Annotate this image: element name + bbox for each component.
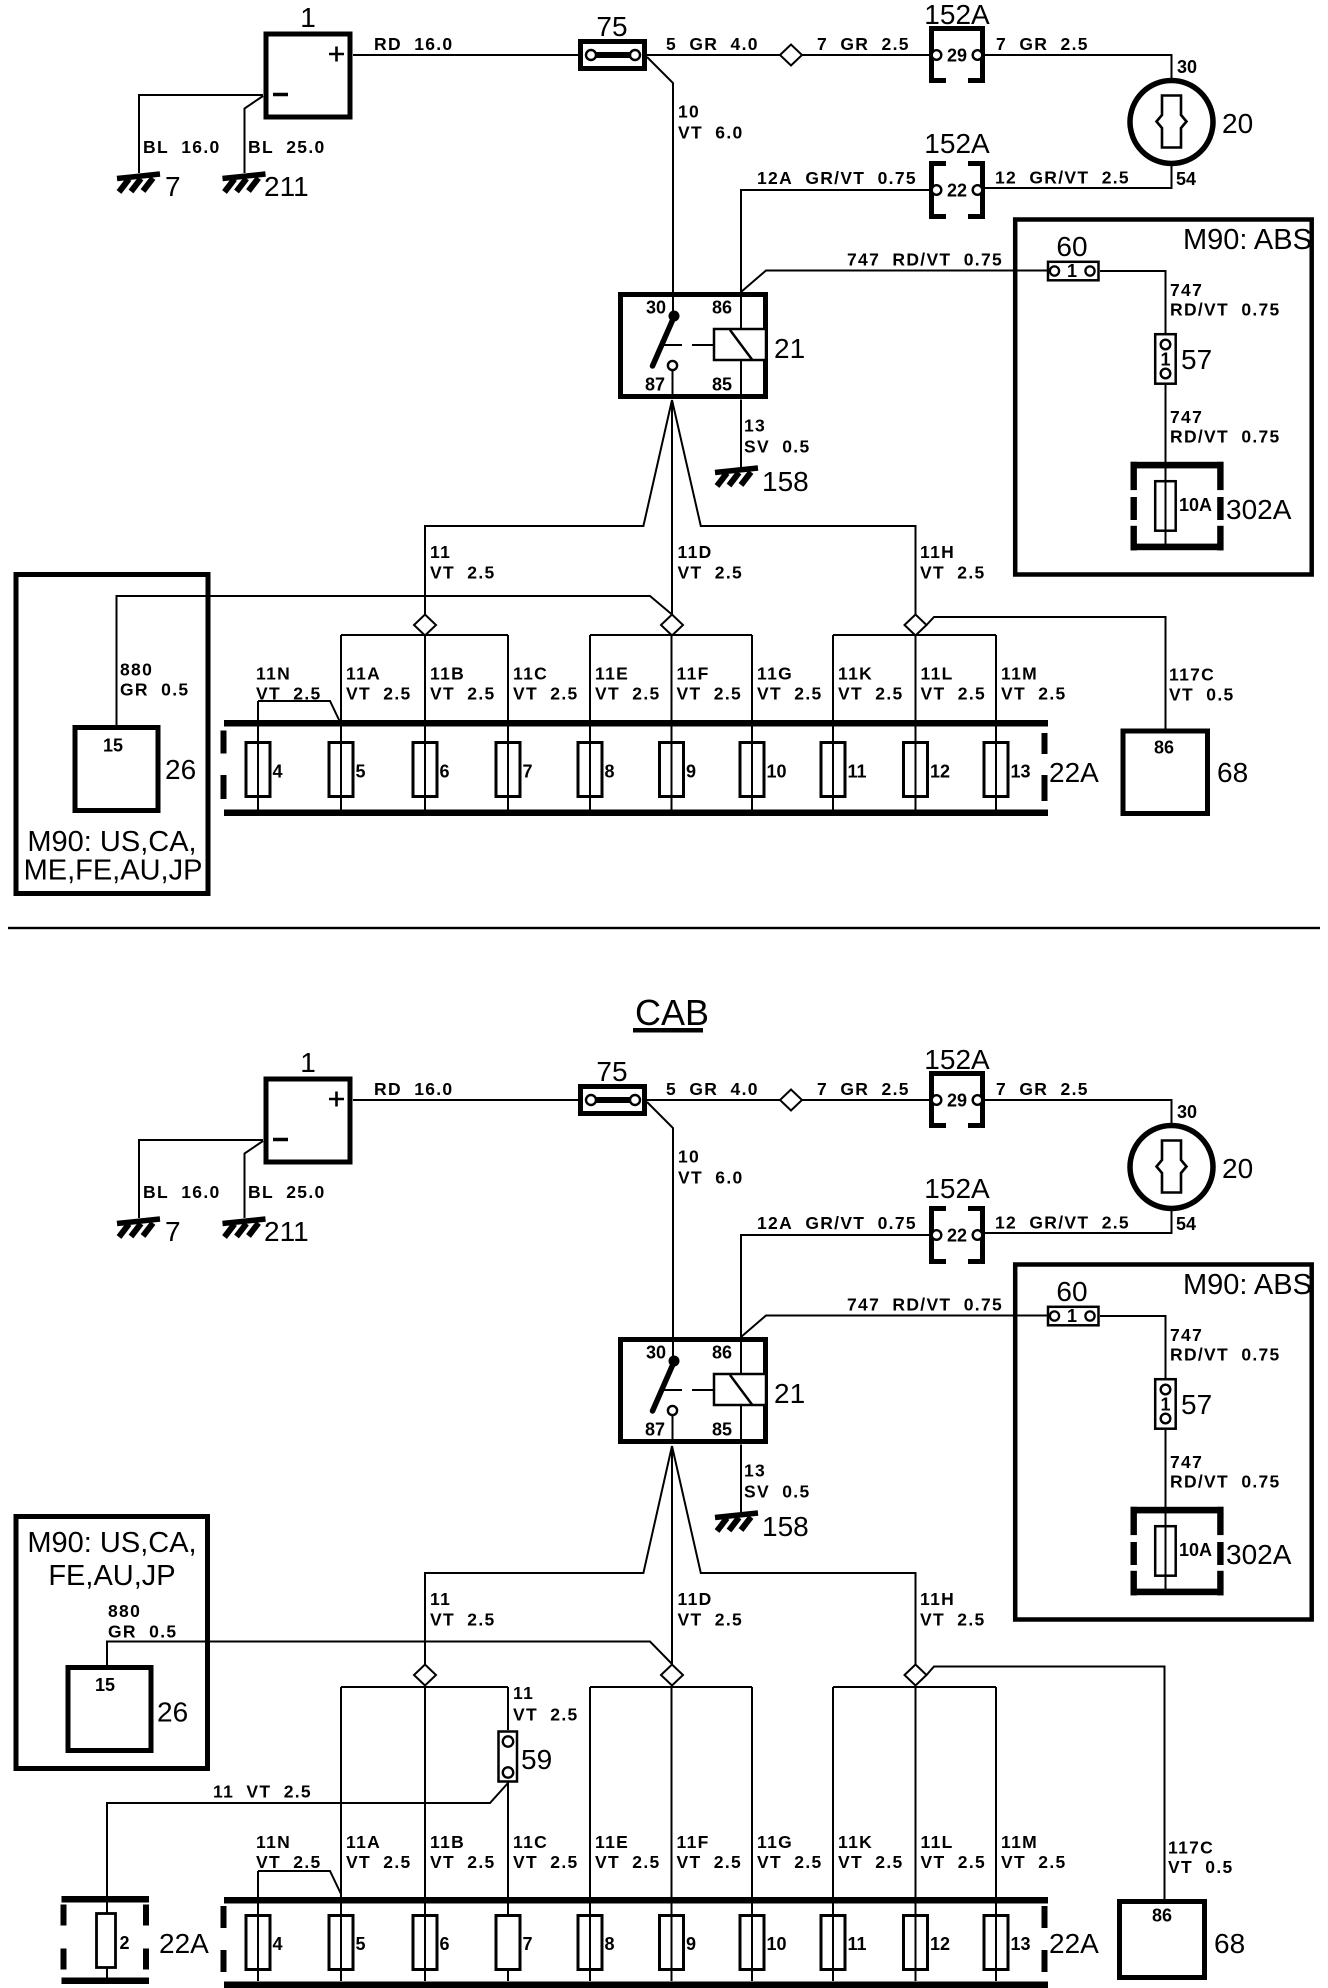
svg-text:60: 60 — [1056, 1276, 1087, 1307]
svg-text:1: 1 — [1160, 350, 1170, 370]
svg-text:30: 30 — [1177, 57, 1197, 77]
fuse holder 59 (bottom) — [499, 1683, 579, 1782]
svg-text:22: 22 — [947, 1226, 967, 1246]
svg-text:VT 2.5: VT 2.5 — [513, 1705, 579, 1725]
svg-text:VT 2.5: VT 2.5 — [678, 1610, 744, 1630]
svg-text:7 GR 2.5: 7 GR 2.5 — [996, 1079, 1089, 1099]
svg-text:13: 13 — [744, 1461, 766, 1481]
wire 11G VT 2.5 (bottom) — [752, 1687, 823, 1981]
svg-text:VT 0.5: VT 0.5 — [1168, 1857, 1234, 1877]
ground 158 (top) — [715, 466, 809, 497]
svg-text:VT 2.5: VT 2.5 — [346, 1852, 412, 1872]
svg-text:11B: 11B — [430, 1832, 465, 1852]
svg-text:VT 2.5: VT 2.5 — [838, 1852, 904, 1872]
svg-text:VT 2.5: VT 2.5 — [757, 1852, 823, 1872]
svg-text:1: 1 — [300, 1047, 316, 1078]
svg-text:BL 16.0: BL 16.0 — [143, 1182, 221, 1202]
node diamond 11 (top) — [414, 615, 436, 636]
wire 11 VT 2.5 jumper (bottom) — [107, 1781, 508, 1982]
svg-text:12A GR/VT 0.75: 12A GR/VT 0.75 — [757, 168, 917, 188]
svg-text:RD 16.0: RD 16.0 — [374, 1079, 453, 1099]
connector 152A pin 22 (bottom) — [924, 1173, 990, 1262]
svg-text:302A: 302A — [1226, 1539, 1292, 1570]
svg-text:RD/VT 0.75: RD/VT 0.75 — [1170, 300, 1281, 320]
wire spread 11E-11G (top) — [590, 634, 752, 636]
svg-text:12: 12 — [930, 1934, 950, 1954]
ground 158 (bottom) — [715, 1511, 809, 1542]
wire 747 RD/VT 0.75 b (bottom) — [1100, 1316, 1281, 1378]
wire spread 11A-11C (top) — [341, 634, 508, 636]
svg-text:RD/VT 0.75: RD/VT 0.75 — [1170, 1345, 1281, 1365]
svg-text:8: 8 — [605, 762, 615, 782]
wire 11K VT 2.5 (top) — [833, 635, 904, 810]
svg-text:11L: 11L — [921, 1832, 954, 1852]
connector 15 / component 26 (bottom) — [68, 1668, 188, 1751]
svg-text:68: 68 — [1214, 1928, 1245, 1959]
wire 7 GR 2.5 a (bottom) — [802, 1079, 929, 1100]
svg-text:11D: 11D — [678, 542, 713, 562]
svg-text:RD/VT 0.75: RD/VT 0.75 — [1170, 427, 1281, 447]
wire 11C VT 2.5 (top) — [508, 635, 579, 810]
wire 13 SV 0.5 (bottom) — [741, 1445, 811, 1514]
svg-text:12: 12 — [930, 762, 950, 782]
svg-text:BL 25.0: BL 25.0 — [248, 1182, 326, 1202]
wire 747 RD/VT 0.75 c (top) — [1166, 385, 1281, 464]
svg-text:5: 5 — [356, 1934, 366, 1954]
svg-text:11M: 11M — [1001, 664, 1038, 684]
svg-text:12 GR/VT 2.5: 12 GR/VT 2.5 — [995, 168, 1130, 188]
node splice diamond (top) — [780, 45, 802, 66]
svg-text:1: 1 — [1067, 1306, 1077, 1326]
wire 5 GR 4.0 (bottom) — [647, 1079, 780, 1100]
svg-text:7 GR 2.5: 7 GR 2.5 — [817, 34, 910, 54]
svg-text:VT 2.5: VT 2.5 — [595, 1852, 661, 1872]
wire 7 GR 2.5 b (bottom) — [983, 1079, 1197, 1123]
wire 11H VT 2.5 (top) — [672, 400, 986, 615]
wire 11F VT 2.5 (top) — [672, 636, 743, 811]
fusebox 22A frame (bottom) — [221, 1897, 1100, 1988]
svg-text:11F: 11F — [677, 664, 710, 684]
connector 15 / component 26 (top) — [75, 728, 196, 811]
svg-text:VT 2.5: VT 2.5 — [920, 1610, 986, 1630]
connector 60 (bottom) — [1048, 1276, 1099, 1326]
svg-text:10: 10 — [678, 1147, 700, 1167]
svg-text:11 VT 2.5: 11 VT 2.5 — [213, 1782, 312, 1802]
svg-text:68: 68 — [1217, 757, 1248, 788]
svg-text:152A: 152A — [924, 128, 990, 159]
wire RD 16.0 (top) — [353, 34, 578, 55]
wire 10 VT 6.0 (bottom) — [647, 1102, 744, 1337]
wire BL 16.0 (top) — [139, 95, 263, 173]
svg-text:26: 26 — [157, 1697, 188, 1728]
svg-text:VT 2.5: VT 2.5 — [256, 684, 322, 704]
svg-text:152A: 152A — [924, 0, 990, 30]
svg-text:VT 2.5: VT 2.5 — [1001, 1852, 1067, 1872]
svg-text:ME,FE,AU,JP: ME,FE,AU,JP — [24, 855, 203, 887]
fusebox 22A frame (top) — [221, 720, 1100, 816]
wire 880 GR 0.5 (bottom) — [107, 1601, 672, 1665]
wire 12A GR/VT 0.75 (bottom) — [741, 1213, 929, 1337]
svg-text:85: 85 — [712, 375, 732, 395]
svg-text:57: 57 — [1181, 1389, 1212, 1420]
svg-text:11B: 11B — [430, 664, 465, 684]
svg-text:2: 2 — [120, 1933, 130, 1953]
svg-text:747 RD/VT 0.75: 747 RD/VT 0.75 — [847, 250, 1003, 270]
svg-text:29: 29 — [947, 1091, 967, 1111]
svg-text:7 GR 2.5: 7 GR 2.5 — [817, 1079, 910, 1099]
svg-text:4: 4 — [273, 762, 283, 782]
wire BL 16.0 (bottom) — [139, 1140, 263, 1218]
M90 ABS box (bottom) — [1015, 1265, 1312, 1620]
wire RD 16.0 (bottom) — [353, 1079, 578, 1100]
svg-text:22A: 22A — [1049, 1928, 1099, 1959]
svg-text:880: 880 — [108, 1601, 141, 1621]
svg-text:85: 85 — [712, 1420, 732, 1440]
svg-text:87: 87 — [645, 1420, 665, 1440]
svg-text:M90: US,CA,: M90: US,CA, — [27, 1527, 196, 1559]
svg-text:152A: 152A — [924, 1173, 990, 1204]
svg-text:RD/VT 0.75: RD/VT 0.75 — [1170, 1472, 1281, 1492]
svg-text:302A: 302A — [1226, 494, 1292, 525]
svg-text:1: 1 — [1160, 1395, 1170, 1415]
svg-text:747: 747 — [1170, 407, 1203, 427]
svg-text:11C: 11C — [513, 664, 548, 684]
wire 12A GR/VT 0.75 (top) — [741, 168, 929, 292]
svg-text:26: 26 — [165, 754, 196, 785]
node diamond 11H (top) — [905, 615, 927, 636]
fuses 4-13 (bottom) — [246, 1916, 1031, 1970]
connector 86 / component 68 (top) — [1123, 731, 1248, 814]
wire 13 SV 0.5 (top) — [741, 400, 811, 469]
svg-text:747 RD/VT 0.75: 747 RD/VT 0.75 — [847, 1295, 1003, 1315]
svg-text:86: 86 — [712, 298, 732, 318]
svg-text:211: 211 — [264, 1216, 309, 1247]
svg-text:9: 9 — [686, 1934, 696, 1954]
wire 10 VT 6.0 (top) — [647, 57, 744, 292]
battery 1 (bottom) — [266, 1047, 350, 1162]
svg-text:1: 1 — [1067, 261, 1077, 281]
svg-text:VT 2.5: VT 2.5 — [430, 1852, 496, 1872]
svg-text:VT 2.5: VT 2.5 — [1001, 684, 1067, 704]
svg-text:22A: 22A — [159, 1928, 209, 1959]
connector 152A pin 22 (top) — [924, 128, 990, 217]
svg-text:21: 21 — [774, 333, 805, 364]
svg-text:VT 2.5: VT 2.5 — [256, 1852, 322, 1872]
svg-text:117C: 117C — [1169, 665, 1215, 685]
wire spread 11E-11G (bottom) — [590, 1686, 752, 1688]
svg-text:75: 75 — [596, 11, 627, 42]
svg-text:15: 15 — [103, 736, 123, 756]
svg-text:15: 15 — [95, 1675, 115, 1695]
wire 7 GR 2.5 a (top) — [802, 34, 929, 55]
wire 12 GR/VT 2.5 (bottom) — [983, 1211, 1196, 1234]
ground 7 (bottom) — [117, 1216, 181, 1247]
wire 7 GR 2.5 b (top) — [983, 34, 1197, 78]
svg-text:CAB: CAB — [635, 992, 709, 1033]
svg-text:11A: 11A — [346, 1832, 381, 1852]
svg-text:29: 29 — [947, 46, 967, 66]
wire 11A VT 2.5 (bottom) — [341, 1687, 412, 1981]
svg-text:VT 2.5: VT 2.5 — [920, 563, 986, 583]
svg-text:GR 0.5: GR 0.5 — [120, 680, 189, 700]
svg-text:VT 2.5: VT 2.5 — [921, 684, 987, 704]
fusebox 22A single frame (bottom) — [61, 1896, 150, 1984]
svg-text:11: 11 — [848, 1934, 867, 1954]
svg-text:57: 57 — [1181, 344, 1212, 375]
svg-text:60: 60 — [1056, 231, 1087, 262]
svg-text:7: 7 — [165, 1216, 181, 1247]
connector 60 (top) — [1048, 231, 1099, 281]
svg-text:5 GR 4.0: 5 GR 4.0 — [666, 34, 759, 54]
svg-text:SV 0.5: SV 0.5 — [744, 437, 811, 457]
relay 21 (bottom) — [621, 1337, 806, 1444]
svg-text:VT 2.5: VT 2.5 — [757, 684, 823, 704]
M90 US,CA,ME,FE,AU,JP box (top) — [16, 575, 208, 894]
fuse 2 (bottom) — [97, 1896, 210, 1978]
svg-text:86: 86 — [1154, 738, 1174, 758]
wire 747 RD/VT 0.75 b (top) — [1100, 271, 1281, 333]
battery 1 (top) — [266, 2, 350, 117]
svg-text:152A: 152A — [924, 1044, 990, 1075]
node diamond 11D (top) — [661, 615, 683, 636]
svg-text:11G: 11G — [757, 664, 793, 684]
svg-text:10: 10 — [767, 1934, 787, 1954]
wire 5 GR 4.0 (top) — [647, 34, 780, 55]
svg-text:11H: 11H — [920, 542, 955, 562]
fuse holder 57 (top) — [1155, 334, 1212, 384]
connector 86 / component 68 (bottom) — [1120, 1902, 1246, 1978]
svg-text:86: 86 — [712, 1343, 732, 1363]
wire 11 VT 2.5 (bottom) — [425, 1446, 672, 1665]
svg-text:211: 211 — [264, 171, 309, 202]
M90 ABS box (top) — [1015, 220, 1312, 575]
wire 11E VT 2.5 (bottom) — [590, 1687, 661, 1981]
svg-text:VT 6.0: VT 6.0 — [678, 123, 744, 143]
svg-text:117C: 117C — [1168, 1838, 1214, 1858]
wire 11D VT 2.5 (top) — [672, 400, 743, 615]
svg-text:87: 87 — [645, 375, 665, 395]
fuses 4-13 (top) — [246, 743, 1031, 797]
relay 21 (top) — [621, 292, 806, 399]
wire 11B VT 2.5 (bottom) — [425, 1688, 496, 1982]
svg-text:11E: 11E — [595, 1832, 629, 1852]
svg-text:13: 13 — [1011, 762, 1031, 782]
svg-text:11A: 11A — [346, 664, 381, 684]
ground 7 (top) — [117, 171, 181, 202]
wire 11D VT 2.5 (bottom) — [672, 1446, 743, 1665]
fuse 75 (bottom) — [581, 1056, 645, 1114]
wire 117C VT 0.5 (bottom) — [927, 1667, 1234, 1900]
svg-text:59: 59 — [521, 1744, 552, 1775]
node diamond 11D (bottom) — [661, 1665, 683, 1686]
svg-text:30: 30 — [1177, 1102, 1197, 1122]
svg-text:GR 0.5: GR 0.5 — [108, 1622, 177, 1642]
svg-text:30: 30 — [646, 298, 666, 318]
wire 11L VT 2.5 (bottom) — [916, 1688, 987, 1982]
wire 747 RD/VT 0.75 c (bottom) — [1166, 1430, 1281, 1509]
svg-text:747: 747 — [1170, 1325, 1203, 1345]
connector 152A pin 29 (bottom) — [924, 1044, 990, 1126]
svg-text:20: 20 — [1222, 108, 1253, 139]
ignition switch 20 (bottom) — [1130, 1126, 1253, 1209]
svg-text:VT 2.5: VT 2.5 — [430, 684, 496, 704]
wire 11M VT 2.5 (top) — [996, 635, 1067, 810]
svg-text:VT 2.5: VT 2.5 — [677, 1852, 743, 1872]
node diamond 11 (bottom) — [414, 1665, 436, 1686]
svg-text:RD 16.0: RD 16.0 — [374, 34, 453, 54]
CAB title — [633, 992, 709, 1033]
wire 11L VT 2.5 (top) — [916, 636, 987, 811]
wire 11K VT 2.5 (bottom) — [833, 1687, 904, 1981]
wire 880 GR 0.5 (top) — [117, 596, 673, 725]
svg-text:11N: 11N — [256, 1832, 291, 1852]
wire 11B VT 2.5 (top) — [425, 636, 496, 811]
fuse 302A 10A (top) — [1131, 462, 1292, 551]
svg-text:7 GR 2.5: 7 GR 2.5 — [996, 34, 1089, 54]
wire 747 RD/VT 0.75 (bottom) — [741, 1295, 1047, 1338]
svg-text:30: 30 — [646, 1343, 666, 1363]
svg-text:VT 0.5: VT 0.5 — [1169, 685, 1235, 705]
svg-text:13: 13 — [744, 416, 766, 436]
connector 152A pin 29 (top) — [924, 0, 990, 81]
svg-text:8: 8 — [605, 1934, 615, 1954]
svg-text:VT 2.5: VT 2.5 — [513, 684, 579, 704]
wire 12 GR/VT 2.5 (top) — [983, 166, 1196, 189]
svg-text:7: 7 — [523, 762, 533, 782]
svg-text:11: 11 — [848, 762, 867, 782]
svg-text:FE,AU,JP: FE,AU,JP — [48, 1560, 175, 1592]
svg-text:VT 6.0: VT 6.0 — [678, 1168, 744, 1188]
wire 11H VT 2.5 (bottom) — [672, 1446, 986, 1665]
svg-text:22: 22 — [947, 181, 967, 201]
svg-text:11L: 11L — [921, 664, 954, 684]
svg-text:11C: 11C — [513, 1832, 548, 1852]
svg-text:10: 10 — [767, 762, 787, 782]
svg-text:VT 2.5: VT 2.5 — [595, 684, 661, 704]
wire 11A VT 2.5 (top) — [341, 635, 412, 810]
wire 11N VT 2.5 (top) — [256, 664, 341, 811]
svg-text:11G: 11G — [757, 1832, 793, 1852]
svg-text:VT 2.5: VT 2.5 — [430, 563, 496, 583]
svg-text:12 GR/VT 2.5: 12 GR/VT 2.5 — [995, 1213, 1130, 1233]
svg-text:11E: 11E — [595, 664, 629, 684]
node splice diamond (bottom) — [780, 1090, 802, 1111]
svg-text:5 GR 4.0: 5 GR 4.0 — [666, 1079, 759, 1099]
svg-text:21: 21 — [774, 1378, 805, 1409]
fuse 75 (top) — [581, 11, 645, 69]
svg-text:11H: 11H — [920, 1589, 955, 1609]
svg-text:13: 13 — [1011, 1934, 1031, 1954]
svg-text:SV 0.5: SV 0.5 — [744, 1482, 811, 1502]
node diamond 11H (bottom) — [905, 1665, 927, 1686]
wire 11N VT 2.5 (bottom) — [256, 1832, 341, 1981]
svg-text:VT 2.5: VT 2.5 — [513, 1852, 579, 1872]
wire spread 11K-11M (bottom) — [833, 1686, 996, 1688]
svg-text:12A GR/VT 0.75: 12A GR/VT 0.75 — [757, 1213, 917, 1233]
svg-text:VT 2.5: VT 2.5 — [838, 684, 904, 704]
wire spread 11K-11M (top) — [833, 634, 996, 636]
svg-text:6: 6 — [440, 1934, 450, 1954]
svg-text:1: 1 — [300, 2, 316, 33]
svg-text:11F: 11F — [677, 1832, 710, 1852]
svg-text:5: 5 — [356, 762, 366, 782]
ground 211 (bottom) — [223, 1216, 309, 1247]
svg-text:11: 11 — [513, 1683, 534, 1703]
divider line — [8, 927, 1320, 929]
wire 11E VT 2.5 (top) — [590, 635, 661, 810]
svg-text:747: 747 — [1170, 280, 1203, 300]
svg-text:VT 2.5: VT 2.5 — [921, 1852, 987, 1872]
svg-text:M90: ABS: M90: ABS — [1183, 224, 1312, 256]
svg-text:11M: 11M — [1001, 1832, 1038, 1852]
svg-text:11K: 11K — [838, 1832, 873, 1852]
svg-text:747: 747 — [1170, 1452, 1203, 1472]
svg-text:9: 9 — [686, 762, 696, 782]
svg-text:11K: 11K — [838, 664, 873, 684]
svg-text:VT 2.5: VT 2.5 — [677, 684, 743, 704]
svg-text:54: 54 — [1176, 1214, 1196, 1234]
ignition switch 20 (top) — [1130, 81, 1253, 164]
svg-text:11D: 11D — [678, 1589, 713, 1609]
svg-text:M90: ABS: M90: ABS — [1183, 1269, 1312, 1301]
svg-text:6: 6 — [440, 762, 450, 782]
wire 747 RD/VT 0.75 (top) — [741, 250, 1047, 293]
wire 11F VT 2.5 (bottom) — [672, 1688, 743, 1982]
ground 211 (top) — [223, 171, 309, 202]
wire 11C VT 2.5 (bottom) — [513, 1832, 579, 1872]
svg-text:11: 11 — [430, 1589, 451, 1609]
wire spread 11A-11C (bottom) — [341, 1686, 508, 1688]
svg-text:880: 880 — [120, 660, 153, 680]
svg-text:54: 54 — [1176, 169, 1196, 189]
svg-text:M90: US,CA,: M90: US,CA, — [27, 826, 196, 858]
wire BL 25.0 (bottom) — [245, 1141, 326, 1218]
svg-text:7: 7 — [523, 1934, 533, 1954]
svg-text:10A: 10A — [1179, 1540, 1212, 1560]
svg-text:11N: 11N — [256, 664, 291, 684]
svg-text:22A: 22A — [1049, 757, 1099, 788]
fuse holder 57 (bottom) — [1155, 1379, 1212, 1429]
svg-text:4: 4 — [273, 1934, 283, 1954]
wire 11M VT 2.5 (bottom) — [996, 1687, 1067, 1981]
svg-text:VT 2.5: VT 2.5 — [430, 1610, 496, 1630]
svg-text:VT 2.5: VT 2.5 — [678, 563, 744, 583]
M90 US,CA,FE,AU,JP box (bottom) — [16, 1517, 208, 1769]
svg-text:7: 7 — [165, 171, 181, 202]
svg-text:10A: 10A — [1179, 495, 1212, 515]
svg-text:75: 75 — [596, 1056, 627, 1087]
svg-text:11: 11 — [430, 542, 451, 562]
wire 117C VT 0.5 (top) — [927, 617, 1235, 729]
svg-text:BL 25.0: BL 25.0 — [248, 137, 326, 157]
svg-text:10: 10 — [678, 102, 700, 122]
wire BL 25.0 (top) — [245, 96, 326, 173]
wire 11 VT 2.5 (top) — [425, 400, 672, 615]
svg-text:86: 86 — [1152, 1906, 1172, 1926]
wire 11G VT 2.5 (top) — [752, 635, 823, 810]
svg-text:VT 2.5: VT 2.5 — [346, 684, 412, 704]
svg-text:20: 20 — [1222, 1153, 1253, 1184]
svg-text:BL 16.0: BL 16.0 — [143, 137, 221, 157]
svg-text:158: 158 — [762, 466, 809, 497]
fuse 302A 10A (bottom) — [1131, 1507, 1292, 1596]
svg-text:158: 158 — [762, 1511, 809, 1542]
